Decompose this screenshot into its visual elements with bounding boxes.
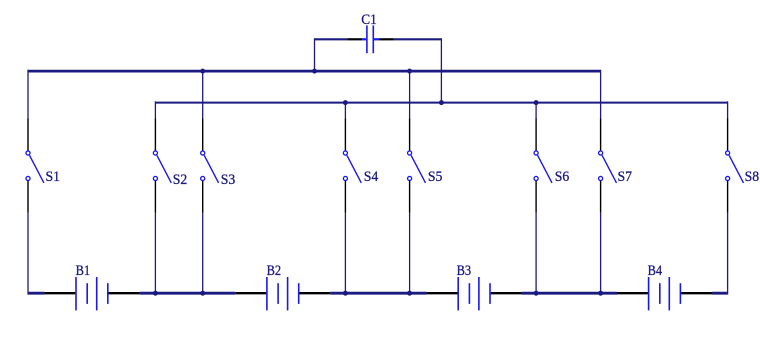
svg-text:S7: S7 [618,169,633,185]
svg-text:S4: S4 [364,169,379,185]
svg-text:C1: C1 [361,12,377,28]
svg-text:S1: S1 [46,169,61,185]
svg-text:S6: S6 [555,169,570,185]
svg-text:S5: S5 [428,169,443,185]
svg-text:S3: S3 [221,172,236,188]
svg-text:B4: B4 [648,263,663,279]
svg-text:B2: B2 [267,263,282,279]
svg-text:S8: S8 [745,169,760,185]
svg-text:B1: B1 [76,263,91,279]
svg-text:S2: S2 [173,172,188,188]
svg-text:B3: B3 [457,263,472,279]
